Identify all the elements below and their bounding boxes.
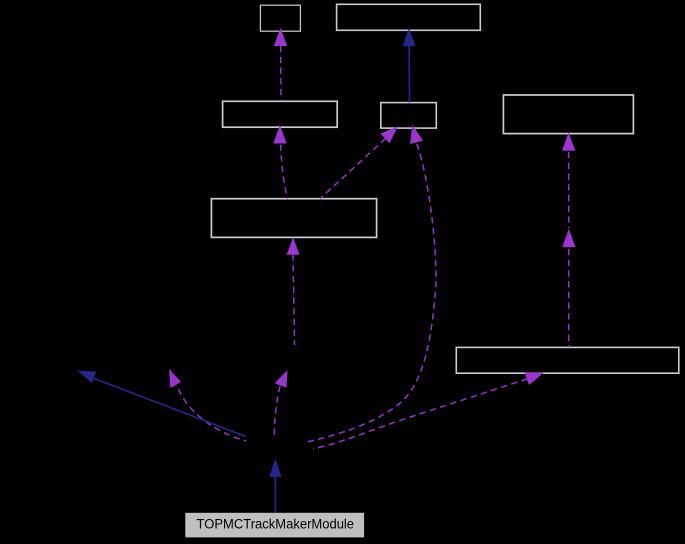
svg-text:TOPMCTrackMakerModule: TOPMCTrackMakerModule xyxy=(197,516,355,531)
